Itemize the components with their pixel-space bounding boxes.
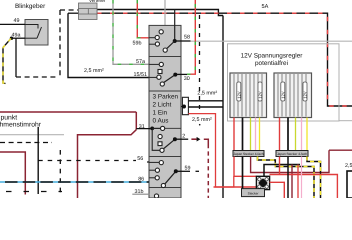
U1 wire red	[233, 118, 235, 151]
wire 58 black stub out	[175, 40, 191, 42]
section3 contacts	[158, 134, 162, 138]
U2 wire yellow-green	[295, 118, 297, 151]
svg-text:58: 58	[184, 35, 190, 41]
svg-text:86: 86	[138, 176, 144, 182]
section1: wire black x175 from bus to contact 58	[174, 10, 176, 42]
wire black bracket lower	[188, 106, 223, 108]
U2 wire pink	[301, 118, 303, 151]
wire maroon drop x292	[291, 165, 293, 199]
wire maroon dashed drop x208	[204, 139, 209, 144]
wire black x38 ground drop	[37, 127, 39, 194]
switch divider 4	[149, 156, 181, 158]
connector Japan Stecker 4-fach #1	[233, 151, 264, 157]
svg-text:Japan Stecker 4-fach: Japan Stecker 4-fach	[277, 152, 307, 156]
wire gray left y134.7	[0, 134, 64, 136]
switch divider 5	[149, 187, 181, 189]
wire black U1 below connector	[242, 157, 244, 191]
harness boundary dashed top	[60, 9, 79, 11]
svg-text:12V: 12V	[280, 91, 285, 98]
svg-text:12V: 12V	[303, 91, 308, 98]
section2 stub wires	[149, 63, 159, 65]
section1 contact 58 dot	[173, 39, 177, 43]
svg-text:Japan Stecker 4-fach: Japan Stecker 4-fach	[233, 152, 263, 156]
wire 59 stub	[176, 170, 190, 172]
ignition/light switch S1 body	[149, 25, 181, 198]
wire black/yellow to flasher	[3, 38, 11, 83]
wire blue/black clutch	[0, 181, 149, 183]
section3 dot terminal 2	[173, 137, 177, 141]
section3 lever	[164, 139, 175, 148]
section1 stub wires	[149, 37, 155, 39]
wire 31b gray	[132, 193, 149, 195]
U1 wire yellow	[259, 118, 261, 151]
svg-text:3 Parken: 3 Parken	[153, 93, 179, 100]
harness boundary dashed right	[59, 10, 61, 77]
harness boundary dashed bottom	[16, 76, 58, 78]
section2 contact 30 dot	[173, 73, 177, 77]
svg-text:30: 30	[184, 76, 190, 82]
wire red U2 drop	[279, 157, 281, 175]
U2 wire red	[279, 118, 281, 151]
wire switch to bracket	[181, 106, 184, 108]
svg-text:15/51: 15/51	[134, 72, 148, 78]
section4 lever	[165, 171, 176, 184]
wire red U1 below connector	[234, 157, 256, 177]
wire maroon ground bus top	[0, 111, 136, 113]
wire 59 dash tail	[196, 170, 200, 172]
connector Japan Stecker 4-fach #2	[276, 151, 308, 157]
box right edge bottom	[347, 171, 352, 198]
wire maroon drop x136	[135, 112, 137, 130]
section1 lever	[165, 41, 175, 50]
wire 56 solid tail	[147, 161, 149, 163]
wire gray x165 into switch top	[164, 0, 166, 25]
svg-text:49: 49	[14, 18, 20, 24]
section3 common link to circle	[152, 127, 162, 129]
wire black dashed x199.5	[199, 15, 201, 111]
svg-text:12V: 12V	[236, 91, 241, 98]
bus black top	[97, 10, 223, 16]
section4 stubs	[149, 161, 159, 163]
wire black vertical x223	[222, 16, 224, 199]
wire black link y164.5	[264, 165, 300, 177]
section3 common dot	[150, 126, 154, 130]
svg-text:2 Licht: 2 Licht	[153, 101, 172, 108]
junction dot bracket	[182, 105, 186, 109]
wire maroon y152 left	[0, 152, 25, 195]
section5 contact	[154, 194, 158, 198]
switch divider 2	[149, 90, 181, 92]
wire red right of X connector	[270, 182, 285, 198]
section1 contact circles	[159, 30, 163, 34]
wire maroon arrow segment	[191, 138, 196, 140]
wire yellow/black zigzag	[258, 157, 315, 199]
wire 58 gray to right edge	[191, 40, 352, 42]
connector X1 (two-part plug)	[79, 3, 98, 20]
wire yellow/black from U2	[307, 157, 321, 199]
svg-text:potentialfrei: potentialfrei	[255, 60, 288, 67]
wire black U2 drop to bottom	[287, 157, 289, 199]
svg-text:2,5 mm²: 2,5 mm²	[192, 117, 212, 123]
svg-text:2,5 mm²: 2,5 mm²	[197, 91, 217, 97]
regulator enclosure	[228, 44, 340, 121]
section3 L-wire down	[152, 128, 160, 150]
svg-text:59: 59	[185, 166, 191, 172]
regulator module U2	[274, 73, 312, 118]
wire gray/green x113 (57a feed)	[113, 0, 149, 64]
wire black dashed bottom left	[6, 191, 62, 193]
U1 wire pink	[255, 118, 257, 151]
svg-text:2,5: 2,5	[345, 163, 352, 169]
svg-text:hmenstimrohr: hmenstimrohr	[0, 122, 42, 129]
svg-text:Verteiler: Verteiler	[89, 0, 106, 3]
wire black bracket upper	[188, 100, 223, 102]
wire black drop to 15/51	[68, 13, 149, 77]
wire stub into connector lower left	[68, 12, 79, 14]
U2 wire yellow	[306, 118, 308, 151]
wire red y174.5	[270, 175, 338, 199]
wire red drop x298	[297, 165, 299, 199]
U2 wire black	[287, 118, 289, 151]
wire black 31 into switch	[136, 128, 152, 130]
wire pink U2 drop	[301, 157, 303, 199]
junction 49a	[10, 37, 13, 40]
wire 2 black stub	[175, 138, 188, 140]
svg-text:12V Spannungsregler: 12V Spannungsregler	[241, 52, 304, 59]
switch divider 1	[149, 56, 181, 58]
U1 wire black	[242, 118, 244, 151]
svg-text:12V: 12V	[258, 91, 263, 98]
bus black/red fused 5A	[97, 13, 352, 106]
wire black dashed x60.5 drop	[59, 150, 61, 196]
switch divider 3	[149, 127, 181, 129]
svg-text:1 Ein: 1 Ein	[153, 109, 168, 116]
wire black drop from 49a	[15, 38, 17, 77]
connector bracket right of switch	[182, 97, 188, 114]
U1 wire yellow-green	[250, 118, 252, 151]
wire maroon diagonal jog	[78, 130, 137, 198]
dot mark	[199, 124, 201, 126]
wire 49a	[11, 37, 25, 39]
section2 contact circles	[159, 62, 163, 66]
wire maroon to right edge	[329, 149, 352, 151]
wire red into X connector	[214, 186, 257, 188]
wire 30 black stub	[175, 73, 187, 75]
connector small bottom box	[242, 189, 265, 197]
svg-text:Stecker: Stecker	[248, 191, 260, 195]
wire 49	[0, 23, 25, 25]
svg-text:59b: 59b	[133, 41, 142, 47]
svg-text:0 Aus: 0 Aus	[153, 117, 169, 124]
svg-text:Blinkgeber: Blinkgeber	[15, 3, 46, 10]
section4 dot terminal 59	[174, 169, 178, 173]
section2 lever	[164, 75, 175, 83]
relay K1 Blinkgeber box	[25, 20, 48, 46]
connector X2 cross square	[256, 176, 269, 189]
wire red/green 30 riser	[187, 0, 195, 74]
svg-text:5A: 5A	[262, 4, 269, 10]
svg-text:56: 56	[137, 156, 143, 162]
wire red/green x137 to 59b	[137, 0, 149, 38]
svg-text:2,5 mm²: 2,5 mm²	[84, 68, 104, 74]
svg-text:57a: 57a	[136, 59, 145, 65]
wire 56 black dashed	[38, 160, 136, 162]
svg-text:2: 2	[182, 133, 185, 139]
wire black dashed y142.5	[0, 142, 52, 144]
gray line right edge	[339, 120, 352, 122]
wire red from bracket	[188, 114, 233, 187]
wire maroon from connector1	[251, 150, 329, 172]
regulator module U1	[230, 73, 267, 118]
section4 contacts	[159, 161, 163, 165]
